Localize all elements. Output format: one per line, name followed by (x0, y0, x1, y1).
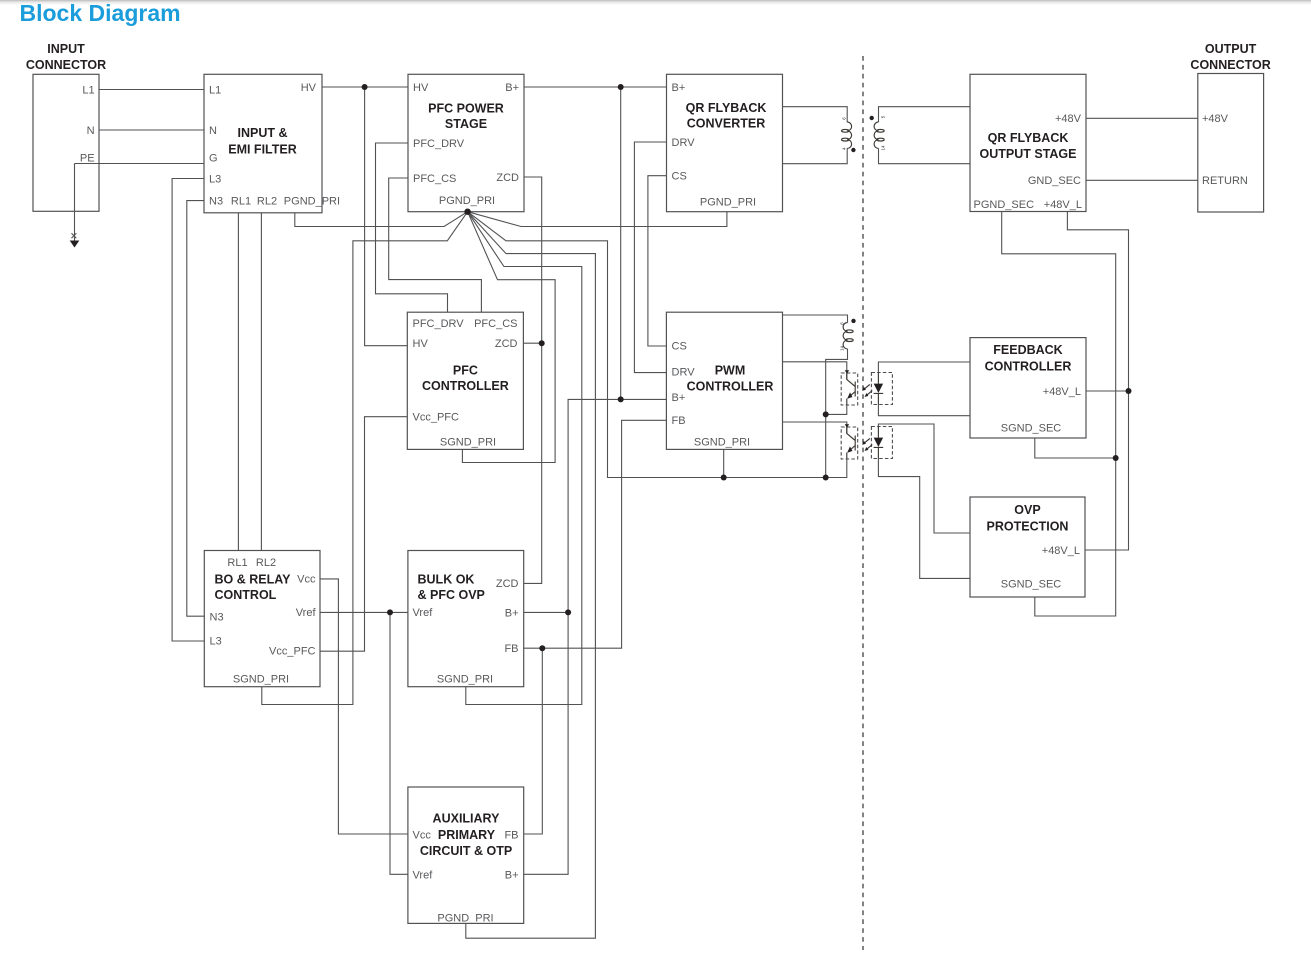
svg-text:SGND_SEC: SGND_SEC (1001, 579, 1062, 591)
svg-text:Vcc_PFC: Vcc_PFC (413, 412, 460, 424)
svg-text:14: 14 (839, 346, 844, 352)
svg-text:STAGE: STAGE (445, 117, 487, 131)
svg-text:N3: N3 (210, 612, 224, 624)
svg-text:PE: PE (80, 152, 95, 164)
svg-text:OVP: OVP (1014, 503, 1040, 517)
svg-text:INPUT: INPUT (47, 42, 85, 56)
svg-text:ZCD: ZCD (496, 578, 519, 590)
svg-text:CONNECTOR: CONNECTOR (26, 58, 106, 72)
svg-text:Vcc_PFC: Vcc_PFC (269, 646, 316, 658)
svg-text:B+: B+ (505, 82, 519, 94)
svg-text:PFC_CS: PFC_CS (413, 173, 456, 185)
svg-text:SGND_PRI: SGND_PRI (233, 674, 289, 686)
svg-text:DRV: DRV (672, 367, 696, 379)
svg-text:GND_SEC: GND_SEC (1028, 175, 1081, 187)
svg-text:+48V_L: +48V_L (1043, 386, 1081, 398)
svg-text:PFC_DRV: PFC_DRV (413, 318, 465, 330)
svg-text:HV: HV (301, 82, 317, 94)
svg-text:PWM: PWM (715, 364, 746, 378)
svg-text:SGND_PRI: SGND_PRI (694, 437, 750, 449)
svg-text:RL1: RL1 (231, 196, 251, 208)
svg-text:4: 4 (841, 147, 846, 150)
svg-text:CS: CS (672, 341, 687, 353)
svg-text:Vref: Vref (413, 870, 434, 882)
svg-text:L1: L1 (82, 85, 94, 97)
svg-text:PGND_PRI: PGND_PRI (439, 195, 495, 207)
svg-text:6: 6 (841, 117, 846, 120)
svg-text:+48V_L: +48V_L (1042, 545, 1080, 557)
svg-text:Vcc: Vcc (297, 574, 316, 586)
svg-text:SGND_PRI: SGND_PRI (437, 674, 493, 686)
svg-text:FB: FB (504, 830, 518, 842)
svg-text:DRV: DRV (672, 137, 696, 149)
svg-text:CIRCUIT & OTP: CIRCUIT & OTP (420, 844, 512, 858)
svg-text:N: N (87, 125, 95, 137)
svg-text:PFC_DRV: PFC_DRV (413, 138, 465, 150)
svg-text:Block Diagram: Block Diagram (20, 0, 181, 26)
svg-text:FB: FB (672, 415, 686, 427)
svg-text:CONTROLLER: CONTROLLER (687, 379, 774, 393)
svg-text:PGND_PRI: PGND_PRI (437, 913, 493, 925)
svg-text:5: 5 (880, 115, 885, 118)
svg-text:SGND_SEC: SGND_SEC (1001, 423, 1062, 435)
svg-text:Vref: Vref (296, 607, 317, 619)
svg-text:L3: L3 (209, 174, 221, 186)
svg-text:PGND_PRI: PGND_PRI (700, 197, 756, 209)
svg-text:RL2: RL2 (256, 557, 276, 569)
svg-text:CONTROLLER: CONTROLLER (422, 379, 509, 393)
svg-text:PROTECTION: PROTECTION (987, 520, 1069, 534)
svg-text:L1: L1 (209, 85, 221, 97)
svg-text:B+: B+ (672, 392, 686, 404)
svg-text:BULK OK: BULK OK (418, 573, 475, 587)
svg-text:6: 6 (839, 322, 844, 325)
svg-text:SGND_PRI: SGND_PRI (440, 437, 496, 449)
svg-text:CS: CS (672, 171, 687, 183)
svg-text:L3: L3 (210, 636, 222, 648)
svg-text:BO & RELAY: BO & RELAY (215, 573, 292, 587)
svg-text:B+: B+ (505, 870, 519, 882)
svg-text:QR FLYBACK: QR FLYBACK (686, 101, 767, 115)
svg-text:B+: B+ (505, 608, 519, 620)
svg-text:ZCD: ZCD (496, 172, 519, 184)
svg-text:N: N (209, 125, 217, 137)
svg-text:+48V: +48V (1055, 113, 1082, 125)
svg-text:FEEDBACK: FEEDBACK (993, 343, 1062, 357)
svg-text:Vcc: Vcc (413, 830, 432, 842)
svg-text:FB: FB (504, 643, 518, 655)
svg-text:+48V: +48V (1202, 113, 1229, 125)
svg-text:HV: HV (413, 82, 429, 94)
svg-text:PFC: PFC (453, 364, 478, 378)
svg-text:OUTPUT: OUTPUT (1205, 42, 1257, 56)
svg-text:ZCD: ZCD (495, 338, 518, 350)
svg-text:PRIMARY: PRIMARY (438, 828, 496, 842)
svg-text:CONTROLLER: CONTROLLER (985, 360, 1072, 374)
svg-text:EMI FILTER: EMI FILTER (228, 143, 297, 157)
svg-text:PFC_CS: PFC_CS (474, 318, 517, 330)
svg-text:OUTPUT STAGE: OUTPUT STAGE (980, 147, 1077, 161)
svg-text:QR FLYBACK: QR FLYBACK (988, 131, 1069, 145)
svg-text:PFC POWER: PFC POWER (428, 102, 504, 116)
svg-text:PGND_PRI: PGND_PRI (284, 196, 340, 208)
svg-text:Vref: Vref (413, 607, 434, 619)
svg-text:AUXILIARY: AUXILIARY (433, 812, 501, 826)
svg-text:N3: N3 (209, 196, 223, 208)
svg-text:RETURN: RETURN (1202, 175, 1248, 187)
svg-text:PGND_SEC: PGND_SEC (974, 199, 1035, 211)
svg-text:& PFC OVP: & PFC OVP (418, 588, 485, 602)
svg-text:CONTROL: CONTROL (215, 588, 277, 602)
svg-text:B+: B+ (672, 82, 686, 94)
svg-text:HV: HV (413, 338, 429, 350)
svg-text:14: 14 (880, 145, 885, 151)
svg-text:INPUT &: INPUT & (238, 126, 288, 140)
svg-text:+48V_L: +48V_L (1044, 199, 1082, 211)
svg-text:G: G (209, 152, 218, 164)
svg-text:RL1: RL1 (227, 557, 247, 569)
svg-text:CONNECTOR: CONNECTOR (1190, 58, 1270, 72)
svg-text:RL2: RL2 (257, 196, 277, 208)
svg-text:CONVERTER: CONVERTER (687, 117, 765, 131)
